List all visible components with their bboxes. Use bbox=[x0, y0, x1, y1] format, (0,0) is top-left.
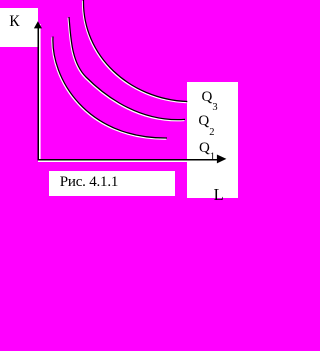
isoquant Q3 curve bbox=[83, 0, 187, 102]
curve label Q2 bbox=[198, 113, 214, 138]
isoquant Q1 white halo bbox=[52, 37, 166, 139]
horizontal axis (L) bbox=[38, 159, 219, 161]
white label box (K axis label background) bbox=[0, 8, 38, 47]
curve label Q3 bbox=[202, 89, 218, 113]
axis label K bbox=[9, 13, 19, 31]
vertical axis white halo bbox=[39, 24, 41, 161]
white label box (Q labels / L background) bbox=[187, 82, 239, 198]
horizontal axis white halo bbox=[38, 160, 218, 162]
isoquant Q2 white halo bbox=[68, 18, 184, 121]
curve label Q1 bbox=[199, 140, 215, 163]
isoquant Q1 curve bbox=[53, 37, 167, 139]
axis label L bbox=[214, 185, 224, 205]
vertical axis arrowhead bbox=[34, 21, 42, 28]
isoquant Q3 white halo bbox=[83, 1, 187, 103]
vertical axis (K) bbox=[37, 24, 39, 160]
caption text bbox=[60, 174, 118, 191]
isoquant Q2 curve bbox=[69, 17, 185, 120]
horizontal axis arrowhead bbox=[217, 155, 227, 164]
white caption box bbox=[49, 171, 175, 197]
